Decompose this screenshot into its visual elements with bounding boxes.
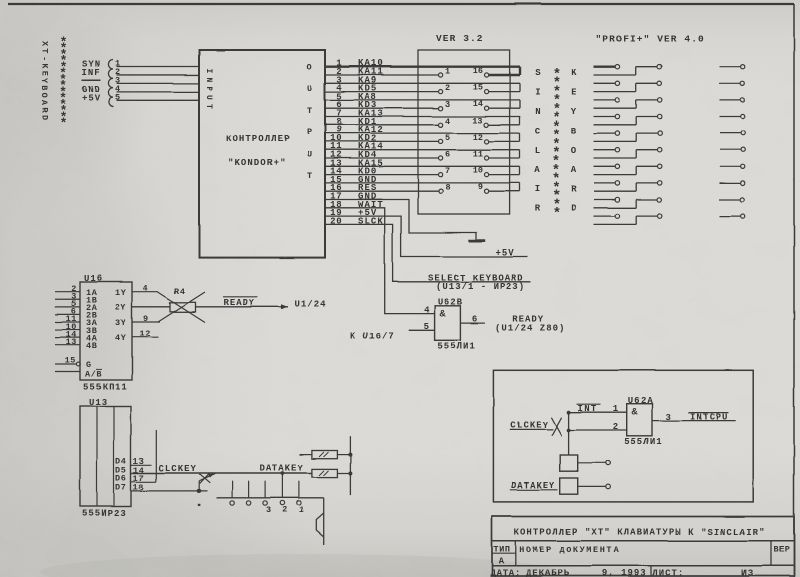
svg-text:X: X — [40, 42, 50, 48]
svg-text:E: E — [571, 88, 577, 98]
svg-text:5: 5 — [445, 133, 450, 143]
svg-text:G: G — [86, 360, 91, 370]
svg-text:C: C — [535, 126, 541, 136]
svg-text:B: B — [40, 85, 50, 90]
svg-text:-: - — [40, 56, 50, 61]
svg-text:VER 3.2: VER 3.2 — [436, 33, 484, 44]
svg-text:16: 16 — [473, 66, 483, 76]
svg-text:*: * — [60, 116, 68, 131]
svg-text:1: 1 — [445, 67, 450, 77]
svg-text:3: 3 — [266, 505, 271, 515]
svg-text:"KONDOR+": "KONDOR+" — [228, 158, 286, 168]
svg-text:A: A — [535, 165, 541, 175]
svg-text:555ИР23: 555ИР23 — [82, 509, 127, 519]
svg-text:B: B — [571, 126, 577, 136]
svg-text:(U13/1 - ИР23): (U13/1 - ИР23) — [436, 282, 526, 292]
svg-text:INF: INF — [82, 68, 101, 78]
svg-text:D: D — [571, 204, 577, 214]
svg-text:A: A — [40, 100, 50, 106]
svg-text:ДАТА:: ДАТА: — [490, 568, 521, 577]
svg-text:12: 12 — [140, 329, 151, 339]
svg-text:2: 2 — [445, 83, 450, 93]
svg-text:4: 4 — [143, 284, 148, 294]
svg-text:5: 5 — [116, 92, 121, 102]
svg-text:3: 3 — [445, 100, 450, 110]
svg-text:P: P — [204, 86, 213, 91]
svg-text:N: N — [535, 107, 540, 117]
svg-text:READY: READY — [224, 298, 256, 308]
svg-text:+5V: +5V — [82, 94, 101, 104]
svg-text:U: U — [204, 95, 213, 100]
svg-text:1: 1 — [299, 505, 304, 515]
svg-text:14: 14 — [473, 99, 483, 109]
svg-text:S: S — [535, 68, 541, 78]
svg-text:INT: INT — [578, 404, 598, 414]
svg-text:4: 4 — [424, 305, 430, 315]
svg-text:U1/24: U1/24 — [295, 300, 327, 310]
svg-text:ИЗ: ИЗ — [741, 568, 754, 577]
svg-text:15: 15 — [65, 356, 76, 366]
svg-text:"PROFI+" VER 4.0: "PROFI+" VER 4.0 — [596, 34, 705, 45]
svg-text:&: & — [632, 408, 638, 419]
svg-text:I: I — [535, 185, 540, 195]
svg-text:9: 9 — [478, 182, 483, 192]
svg-text:I: I — [535, 88, 540, 98]
svg-text:ДЕКАБРЬ: ДЕКАБРЬ — [526, 568, 570, 577]
svg-text:8: 8 — [445, 183, 450, 193]
svg-text:4B: 4B — [86, 341, 97, 351]
svg-text:O: O — [307, 63, 312, 73]
svg-text:T: T — [204, 104, 213, 109]
svg-text:T: T — [307, 106, 312, 116]
svg-text:R: R — [535, 204, 541, 214]
svg-text:INTCPU: INTCPU — [690, 412, 728, 422]
svg-text:12: 12 — [473, 132, 483, 142]
svg-text:3Y: 3Y — [115, 318, 127, 328]
svg-text:НОМЕР ДОКУМЕНТА: НОМЕР ДОКУМЕНТА — [519, 545, 620, 555]
svg-text:R: R — [40, 107, 50, 113]
svg-text:CLCKEY: CLCKEY — [159, 464, 197, 474]
svg-text:7: 7 — [445, 166, 450, 176]
svg-text:L: L — [535, 146, 540, 156]
svg-text:555КП11: 555КП11 — [83, 383, 128, 393]
svg-text:КОНТРОЛЛЕР: КОНТРОЛЛЕР — [226, 134, 291, 144]
svg-text:K U16/7: K U16/7 — [350, 332, 395, 342]
svg-text:U: U — [307, 84, 312, 94]
svg-text:6: 6 — [445, 150, 450, 160]
svg-text:E: E — [40, 71, 50, 76]
svg-text:K: K — [40, 63, 50, 69]
svg-text:Y: Y — [40, 78, 50, 84]
svg-text:*: * — [552, 207, 560, 223]
svg-text:13: 13 — [473, 116, 483, 126]
svg-text:ЛИСТ:: ЛИСТ: — [652, 568, 684, 577]
svg-text:(U1/24 Z80): (U1/24 Z80) — [495, 323, 565, 333]
svg-text:O: O — [40, 93, 50, 98]
svg-text:R: R — [571, 185, 577, 195]
svg-text:3: 3 — [666, 412, 671, 422]
svg-text:T: T — [40, 49, 50, 54]
svg-text:U: U — [307, 149, 312, 159]
svg-text:2: 2 — [283, 505, 288, 515]
svg-text:A: A — [571, 165, 577, 175]
svg-text:1Y: 1Y — [115, 288, 127, 298]
svg-text:1: 1 — [613, 404, 619, 414]
svg-text:4Y: 4Y — [115, 334, 127, 344]
svg-text:&: & — [440, 310, 446, 321]
svg-text:D7: D7 — [116, 483, 127, 493]
svg-text:555ЛИ1: 555ЛИ1 — [437, 342, 475, 352]
svg-text:555ЛИ1: 555ЛИ1 — [624, 437, 662, 447]
svg-text:A/B: A/B — [85, 370, 102, 380]
svg-text:5: 5 — [424, 322, 429, 332]
svg-text:4: 4 — [445, 116, 450, 126]
svg-text:+5V: +5V — [496, 248, 515, 258]
svg-text:P: P — [307, 128, 312, 138]
svg-text:ВЕР: ВЕР — [774, 545, 790, 555]
svg-text:9: 9 — [143, 314, 148, 324]
svg-text:T: T — [307, 171, 312, 181]
svg-text:10: 10 — [473, 166, 483, 176]
svg-text:N: N — [204, 77, 213, 82]
svg-text:6: 6 — [472, 314, 477, 324]
svg-text:K: K — [571, 68, 577, 78]
svg-text:9, 1993: 9, 1993 — [602, 568, 647, 577]
svg-text:13: 13 — [66, 337, 77, 347]
svg-text:11: 11 — [473, 149, 483, 159]
svg-text:Y: Y — [571, 107, 577, 117]
svg-text:D: D — [40, 115, 50, 120]
svg-text:R4: R4 — [174, 287, 186, 297]
svg-text:15: 15 — [473, 83, 483, 93]
svg-text:2Y: 2Y — [115, 303, 127, 313]
svg-text:2: 2 — [613, 422, 618, 432]
svg-text:КОНТРОЛЛЕР "XT" КЛАВИАТУРЫ К ": КОНТРОЛЛЕР "XT" КЛАВИАТУРЫ К "SINCLAIR" — [514, 528, 766, 538]
svg-text:O: O — [571, 146, 577, 156]
svg-text:I: I — [204, 68, 213, 73]
